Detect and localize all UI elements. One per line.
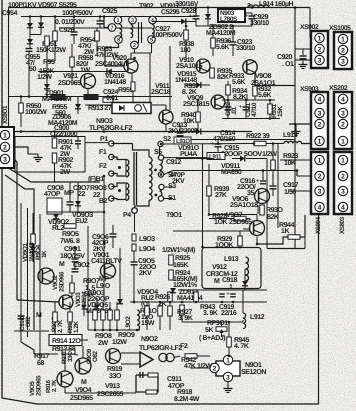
svg-text:F2: F2 — [99, 163, 107, 170]
wire to XS902 pin1 — [310, 8, 311, 38]
svg-text:1: 1 — [318, 35, 322, 42]
svg-text:R922 39: R922 39 — [246, 133, 270, 140]
diode VD902 RL2 — [53, 214, 59, 219]
svg-text:330/10: 330/10 — [250, 19, 269, 27]
transistor V905 2SD965 — [57, 371, 73, 387]
svg-text:5OOV: 5OOV — [244, 151, 262, 158]
svg-text:+: + — [239, 105, 243, 111]
diode VD907 top-left — [29, 17, 31, 24]
svg-text:0. 01/200V: 0. 01/200V — [55, 18, 85, 26]
svg-text:V9O8: V9O8 — [255, 73, 272, 80]
svg-text:4. 7K: 4. 7K — [234, 343, 249, 350]
svg-text:1: 1 — [3, 132, 7, 139]
svg-text:2SC1815: 2SC1815 — [183, 101, 210, 108]
transistor V904 2SD965 — [75, 358, 91, 374]
wire 100P/500V bus — [21, 16, 196, 18]
svg-text:SE12ON: SE12ON — [241, 369, 266, 376]
resistor R929 100K — [238, 236, 243, 246]
svg-text:R93O: R93O — [266, 207, 283, 214]
wire right rail x318 — [318, 215, 320, 404]
svg-text:1: 1 — [318, 157, 322, 164]
svg-text:3: 3 — [318, 57, 322, 64]
svg-text:1/50: 1/50 — [284, 188, 296, 196]
svg-text:4: 4 — [318, 96, 322, 103]
ground near pin2 — [34, 154, 43, 162]
svg-text:3: 3 — [341, 58, 345, 65]
connector XS803 — [334, 152, 352, 214]
svg-text:N9O1: N9O1 — [245, 362, 262, 369]
transistor V909 2SC1815 — [211, 95, 225, 109]
T901 core — [133, 152, 135, 205]
svg-text:2SD965: 2SD965 — [229, 219, 252, 226]
svg-text:T9O1: T9O1 — [166, 212, 182, 219]
diode VD903 EU2 — [75, 201, 81, 206]
wire bus y330 — [88, 329, 140, 331]
svg-text:1N4148: 1N4148 — [29, 242, 36, 262]
resistor R913 270 — [84, 95, 98, 100]
svg-text:R916: R916 — [45, 379, 52, 393]
transistor V906 2SA1018 — [255, 189, 270, 204]
inductor L911 boxed — [207, 153, 225, 160]
electrolytic C928 — [193, 16, 200, 19]
svg-text:C925: C925 — [102, 8, 117, 15]
svg-text:47K 1/2W: 47K 1/2W — [184, 362, 212, 370]
svg-text:2: 2 — [341, 121, 345, 128]
svg-text:+: + — [256, 179, 260, 185]
wire emitter rail y71.5 — [38, 71, 127, 73]
svg-text:3: 3 — [3, 156, 7, 163]
svg-text:33O: 33O — [67, 351, 74, 362]
svg-text:2. 7K: 2. 7K — [51, 379, 58, 392]
svg-text:1: 1 — [341, 157, 345, 164]
svg-text:5.6K: 5.6K — [258, 92, 271, 99]
transistor MP — [101, 264, 116, 279]
wire v911 rail — [169, 46, 171, 110]
T902 bottom wires — [105, 43, 124, 66]
svg-text:35: 35 — [247, 190, 254, 197]
svg-text:P1: P1 — [100, 136, 108, 143]
svg-text:470/160: 470/160 — [213, 135, 236, 143]
T901 primary winding — [149, 157, 152, 200]
wire rail y290 — [178, 289, 267, 291]
svg-text:100P/500V: 100P/500V — [62, 9, 93, 17]
svg-text:2SC2655: 2SC2655 — [97, 391, 124, 398]
svg-text:R925: R925 — [175, 255, 190, 262]
loop C911 R918 — [136, 375, 158, 392]
svg-text:N9O3: N9O3 — [96, 118, 113, 125]
resistor R904 1K (vertical) — [31, 234, 36, 244]
wire y212 — [47, 211, 104, 213]
svg-text:2KV: 2KV — [139, 270, 152, 277]
svg-text:PU4A: PU4A — [180, 151, 197, 158]
svg-text:1/2W1%(M): 1/2W1%(M) — [162, 246, 195, 254]
svg-text:100P/1KV VD907 S5295: 100P/1KV VD907 S5295 — [8, 1, 77, 9]
svg-text:50: 50 — [29, 66, 36, 73]
transistor V908 2SA1015 — [243, 60, 257, 74]
svg-text:N9O2: N9O2 — [141, 336, 158, 343]
resistor R907 5W — [70, 283, 75, 293]
wire vertical rails power — [20, 203, 22, 330]
wire rail x202 — [202, 144, 204, 247]
svg-text:M: M — [36, 312, 42, 319]
svg-text:R918: R918 — [177, 389, 192, 396]
svg-text:22: 22 — [93, 192, 100, 199]
svg-text:P4: P4 — [123, 212, 131, 219]
T902 winding left a — [120, 25, 122, 38]
S pin wires — [164, 143, 254, 146]
svg-text:R913 270: R913 270 — [88, 105, 115, 112]
wire rail x278 — [277, 144, 279, 229]
svg-text:22/16: 22/16 — [221, 309, 237, 317]
resistor R950 100/2W — [19, 103, 24, 113]
svg-text:47OP: 47OP — [44, 191, 61, 198]
svg-text:R914 12O: R914 12O — [52, 338, 81, 345]
T901 secondary winding lower — [160, 187, 162, 201]
svg-text:C911: C911 — [167, 376, 182, 383]
svg-text:R926: R926 — [155, 294, 170, 301]
resistor R923 10K — [271, 160, 276, 170]
resistor R902 47K 2W — [52, 153, 57, 163]
svg-text:2: 2 — [133, 43, 136, 49]
svg-text:2W: 2W — [98, 340, 108, 347]
svg-text:R9O5: R9O5 — [62, 231, 79, 238]
svg-text:7W6. 8: 7W6. 8 — [60, 238, 80, 245]
resistor R938 180 — [184, 30, 189, 40]
transistor V913 2SC2655 — [106, 349, 121, 364]
svg-text:1: 1 — [117, 18, 120, 24]
svg-text:150K1/2W: 150K1/2W — [36, 46, 66, 54]
svg-text:2SD966: 2SD966 — [59, 271, 66, 292]
svg-text:C926: C926 — [59, 27, 74, 34]
wire V907 collector — [256, 215, 258, 222]
svg-text:2SD965: 2SD965 — [36, 375, 43, 396]
zener diode top-left 2 — [40, 17, 42, 23]
capacitor C923 330/10 — [230, 42, 237, 45]
wire top right joins — [196, 25, 252, 27]
svg-text:3. 9K: 3. 9K — [203, 310, 218, 317]
svg-text:C917: C917 — [283, 182, 298, 189]
bead L903 — [132, 234, 136, 241]
ground below N901 — [227, 382, 229, 386]
svg-text:4: 4 — [318, 204, 322, 211]
inductor L912 — [243, 313, 246, 329]
wire rail x150 down — [149, 53, 151, 102]
svg-text:+: + — [211, 142, 215, 148]
svg-text:4: 4 — [151, 18, 154, 24]
svg-text:1N4148: 1N4148 — [104, 79, 126, 86]
inductor L910 boxed — [174, 137, 191, 144]
svg-text:3: 3 — [131, 18, 134, 24]
capacitor C955 — [26, 49, 33, 52]
diode in module — [242, 281, 248, 286]
capacitor C916 symbol — [262, 171, 264, 181]
zener ZD912 MA4104 — [170, 288, 176, 293]
capacitor C911 470P — [140, 372, 143, 378]
IC N903 L7805 box — [218, 9, 245, 22]
bead L904 — [132, 244, 136, 251]
box around R901 R902 — [15, 137, 85, 173]
svg-text:TLP62lGR-LF2: TLP62lGR-LF2 — [139, 344, 182, 352]
wire mid bus y139 — [178, 139, 295, 141]
svg-text:C912: C912 — [166, 159, 181, 166]
wire V908 region — [246, 94, 248, 100]
wire rail x88 — [87, 226, 89, 330]
svg-text:100P/500V: 100P/500V — [152, 31, 183, 39]
wire mid bus y131 — [14, 131, 252, 133]
svg-text:1: 1 — [318, 138, 322, 145]
svg-text:. O1: . O1 — [282, 61, 294, 68]
wire V908 emitter to rail — [255, 72, 295, 86]
resistor R951 — [54, 17, 56, 32]
svg-text:2: 2 — [3, 144, 7, 151]
svg-text:L91O: L91O — [176, 138, 190, 145]
svg-text:+: + — [245, 14, 249, 20]
resistor R926 2K — [168, 292, 173, 302]
module box V912 CR3CM-12 — [202, 248, 261, 289]
svg-text:3: 3 — [318, 188, 322, 195]
T902 winding right — [152, 25, 154, 38]
wire rail x104 — [103, 176, 105, 302]
wire bus y96.5 — [9, 96, 173, 98]
svg-text:C918: C918 — [222, 277, 237, 284]
wire right rail x295 — [294, 8, 296, 249]
svg-text:1: 1 — [226, 357, 230, 364]
ground V921 emitter — [87, 89, 89, 93]
svg-text:1/2W: 1/2W — [112, 338, 127, 346]
svg-text:2SA1O18: 2SA1O18 — [230, 202, 258, 209]
svg-text:+: + — [68, 257, 72, 263]
svg-text:+: + — [226, 292, 230, 298]
wire T902 pin7 left — [104, 17, 108, 28]
svg-text:15K: 15K — [277, 106, 284, 117]
svg-text:0.01: 0.01 — [106, 95, 118, 102]
svg-text:2SC18: 2SC18 — [151, 89, 171, 96]
wire xs902 pin3 — [295, 59, 311, 61]
svg-text:R919: R919 — [107, 366, 122, 373]
capacitor C929 330/10 — [249, 16, 256, 19]
svg-text:MA4120M: MA4120M — [206, 30, 236, 37]
T902 core — [138, 22, 140, 43]
module wires — [244, 269, 246, 281]
svg-text:33O: 33O — [109, 373, 122, 380]
svg-text:180: 180 — [180, 47, 191, 54]
svg-text:MP: MP — [99, 276, 109, 283]
wire R944 area — [267, 248, 305, 250]
transistor V902 2SD966 — [38, 268, 54, 284]
svg-text:MA41O4: MA41O4 — [177, 295, 203, 302]
svg-text:2: 2 — [341, 173, 345, 180]
svg-text:L9O3: L9O3 — [139, 236, 155, 243]
wire bus y322 — [181, 315, 183, 322]
svg-text:R923: R923 — [283, 153, 298, 160]
border frame bottom — [37, 403, 319, 405]
T902 winding left b — [131, 25, 133, 38]
svg-text:M: M — [81, 379, 87, 386]
svg-text:+: + — [226, 40, 230, 46]
svg-text:XS9O1: XS9O1 — [2, 105, 9, 124]
capacitor C900 symbol — [77, 137, 79, 142]
svg-text:C9O1: C9O1 — [64, 246, 81, 253]
wire gnd bus y118 — [222, 118, 280, 120]
zener ZD902 — [205, 14, 211, 19]
svg-text:1/2W: 1/2W — [262, 150, 277, 158]
resistor R901 47K 2W — [54, 132, 56, 139]
capacitor C925 — [99, 17, 101, 22]
svg-text:5.6K: 5.6K — [232, 79, 245, 86]
T901 pin P4 — [132, 208, 138, 214]
svg-text:2: 2 — [318, 121, 322, 128]
svg-text:L913: L913 — [224, 256, 239, 263]
svg-text:1OK: 1OK — [214, 219, 227, 226]
svg-text:68: 68 — [37, 360, 44, 367]
wire rail y302 — [130, 301, 267, 303]
svg-text:3: 3 — [226, 374, 230, 381]
zener diode ZD901 MA4200M — [44, 84, 50, 89]
resistor R925 165K — [169, 255, 174, 265]
svg-text:2W: 2W — [60, 169, 70, 176]
connector left 3-pin — [0, 127, 14, 168]
wire V907 base feed — [173, 230, 250, 232]
svg-text:C920: C920 — [277, 54, 292, 61]
svg-text:1/2W: 1/2W — [37, 73, 52, 81]
svg-text:82K: 82K — [217, 74, 229, 81]
svg-text:1: 1 — [341, 138, 345, 145]
resistor R954 — [96, 28, 98, 31]
wire from pin2 — [14, 147, 28, 154]
svg-text:.01: .01 — [231, 106, 238, 115]
svg-text:3. 9K: 3. 9K — [178, 315, 193, 322]
svg-text:TLP62lGR-LF2: TLP62lGR-LF2 — [89, 124, 132, 132]
rect MP box — [47, 198, 62, 214]
svg-text:2: 2 — [341, 47, 345, 54]
svg-text:1: 1 — [341, 36, 345, 43]
svg-text:2KV: 2KV — [172, 178, 185, 185]
svg-text:L9O2: L9O2 — [125, 316, 132, 331]
svg-text:T902: T902 — [139, 3, 154, 10]
svg-text:1K: 1K — [41, 250, 48, 258]
svg-text:L915: L915 — [283, 132, 298, 139]
svg-text:R9O8: R9O8 — [95, 333, 112, 340]
svg-text:4: 4 — [341, 96, 345, 103]
svg-text:V921: V921 — [63, 73, 78, 80]
diode VD905 pair — [82, 305, 87, 309]
svg-text:XS904: XS904 — [315, 216, 322, 234]
resistor R924 165K(M) — [169, 270, 174, 280]
wire secondary to L911 — [176, 158, 214, 160]
svg-text:RP9O1: RP9O1 — [207, 320, 228, 327]
svg-text:V912: V912 — [212, 264, 227, 271]
diode VD916 1N4148 — [107, 69, 112, 75]
wire S4 rail y170.5 — [173, 170, 297, 172]
svg-text:82K: 82K — [267, 214, 279, 221]
svg-text:L912: L912 — [250, 314, 265, 321]
wires into XS904 — [280, 159, 311, 161]
wire from V906 down — [266, 159, 268, 249]
wire P1 feed — [85, 142, 109, 144]
resistor R943 3.9K — [194, 292, 199, 302]
optocoupler N903 TLP621GR-LF2 — [112, 103, 151, 114]
svg-text:2: 2 — [318, 173, 322, 180]
resistor R930 82K — [260, 205, 265, 215]
svg-text:2SD965: 2SD965 — [70, 395, 93, 402]
svg-text:1K: 1K — [281, 228, 289, 235]
svg-text:C9O2: C9O2 — [73, 262, 90, 269]
transistor V903 2SC2594 — [59, 295, 73, 309]
resistor row bottom — [93, 310, 98, 320]
svg-text:1/2W1%: 1/2W1% — [173, 281, 198, 289]
svg-text:3: 3 — [341, 188, 345, 195]
svg-text:1.2K: 1.2K — [73, 321, 80, 333]
wire routing diagonals — [9, 168, 101, 182]
svg-text:M: M — [214, 278, 220, 285]
svg-text:XS803: XS803 — [339, 216, 346, 234]
wires N902 — [121, 352, 140, 354]
wire xs903 pin2 gnd — [289, 123, 311, 125]
resistor R942 47K 1/2W — [185, 354, 197, 359]
svg-text:C954: C954 — [2, 10, 17, 17]
svg-text:C5295: C5295 — [161, 9, 180, 16]
svg-text:2SD965: 2SD965 — [58, 80, 81, 87]
border frame left — [2, 0, 37, 404]
connector XS904 — [311, 152, 328, 214]
svg-text:L780S: L780S — [220, 16, 238, 23]
resistor R955 560 — [51, 95, 65, 100]
svg-text:M: M — [59, 261, 65, 268]
svg-text:V9O7: V9O7 — [226, 212, 243, 219]
svg-text:330/10: 330/10 — [236, 44, 255, 52]
wire from pin2 of N901 — [190, 367, 210, 369]
svg-text:8.2M 4W: 8.2M 4W — [174, 396, 200, 403]
wire bottom of left section — [17, 300, 59, 302]
box R914 120 — [49, 335, 82, 346]
svg-text:L911: L911 — [209, 154, 222, 161]
svg-text:. O82: . O82 — [25, 316, 32, 330]
svg-text:10K: 10K — [284, 160, 296, 167]
capacitor C919 22/16 — [219, 294, 225, 297]
svg-text:R9O9: R9O9 — [118, 332, 135, 339]
wire opto connections — [85, 104, 112, 106]
svg-text:O82: O82 — [92, 351, 99, 362]
svg-text:F1: F1 — [99, 149, 107, 156]
resistor R945 4.7K — [227, 337, 232, 347]
wire left rail — [8, 8, 10, 128]
svg-text:47/10: 47/10 — [251, 102, 258, 117]
svg-text:2SA1015: 2SA1015 — [176, 63, 203, 70]
svg-text:5K: 5K — [205, 327, 213, 334]
svg-text:EU2: EU2 — [75, 218, 88, 225]
svg-text:2: 2 — [318, 46, 322, 53]
svg-text:( B+ADJ): ( B+ADJ) — [199, 334, 225, 342]
resistor R931 15K — [268, 104, 273, 114]
diode VD901 1N4148 (vertical) — [30, 247, 36, 252]
capacitor C905 2200 2KV — [131, 262, 138, 265]
svg-text:R95: R95 — [43, 59, 55, 66]
svg-text:3: 3 — [341, 110, 345, 117]
svg-text:27K: 27K — [215, 192, 227, 199]
svg-text:7: 7 — [111, 25, 114, 31]
resistor R939 27K — [207, 186, 212, 196]
svg-text:4: 4 — [341, 204, 345, 211]
svg-text:+: + — [189, 14, 193, 20]
resistor R932 5.6K — [253, 86, 258, 96]
svg-text:3: 3 — [318, 110, 322, 117]
diode second on x30 — [27, 39, 33, 44]
resistor R934 8.2K — [226, 85, 231, 95]
svg-text:S2: S2 — [163, 136, 171, 143]
resistor R936 5.6K — [211, 38, 216, 48]
resistor R927 3.9K — [180, 305, 185, 315]
svg-text:2. 7K: 2. 7K — [57, 319, 64, 333]
